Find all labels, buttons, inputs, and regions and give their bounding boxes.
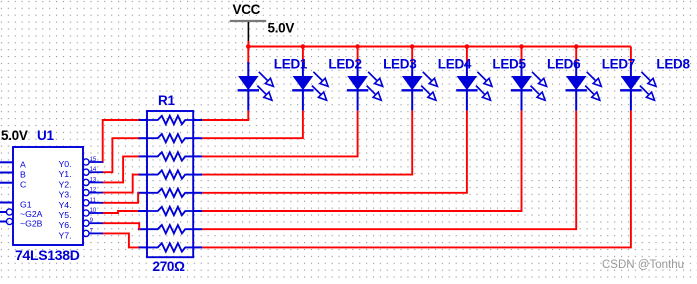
junction bus/LED2: [301, 44, 306, 49]
wire U1 Y5 to R1 row 6: [103, 211, 138, 213]
wire U1 Y4 to R1 row 5: [103, 193, 139, 203]
wire LED3 cathode to R1 row 3: [202, 111, 357, 157]
IC U1 74LS138D decoder: [0, 147, 103, 263]
svg-text:270Ω: 270Ω: [153, 259, 186, 274]
svg-text:10: 10: [90, 208, 97, 214]
wire LED4 cathode to R1 row 4: [202, 111, 412, 175]
svg-text:5.0V: 5.0V: [268, 21, 295, 36]
LED LED7: [566, 57, 636, 111]
svg-text:CSDN @Tonthu: CSDN @Tonthu: [602, 259, 684, 271]
wire bus to LED6 anode: [521, 47, 523, 65]
svg-text:12: 12: [90, 188, 97, 194]
svg-text:G1: G1: [20, 200, 32, 210]
watermark CSDN @Tonthu: [602, 259, 684, 271]
svg-text:Y6.: Y6.: [59, 220, 72, 230]
wire bus to LED1 anode: [247, 47, 249, 65]
wire LED8 cathode to R1 row 8: [202, 111, 631, 248]
wire LED2 cathode to R1 row 2: [202, 111, 303, 139]
svg-text:C: C: [20, 180, 26, 190]
LED LED2: [292, 57, 362, 111]
label U1: [37, 128, 54, 143]
LED LED5: [456, 57, 526, 111]
svg-text:Y1.: Y1.: [59, 169, 72, 179]
wire U1 Y7 to R1 row 8: [103, 233, 139, 247]
wire bus to LED7 anode: [575, 47, 577, 65]
junction bus/LED4: [410, 44, 415, 49]
wire U1 Y6 to R1 row 7: [103, 223, 140, 229]
junction bus/LED3: [355, 44, 360, 49]
LED LED4: [402, 57, 472, 111]
wire bus to LED3 anode: [357, 47, 359, 65]
svg-text:11: 11: [90, 198, 97, 204]
svg-text:Y4.: Y4.: [59, 200, 72, 210]
svg-text:Y7.: Y7.: [59, 230, 72, 240]
svg-text:Y2.: Y2.: [59, 179, 72, 189]
svg-text:VCC: VCC: [233, 2, 261, 17]
svg-text:Y5.: Y5.: [59, 210, 72, 220]
wire bus to LED8 anode: [630, 47, 632, 65]
label 5.0V on U1 supply: [1, 128, 28, 143]
LED LED8: [620, 57, 690, 111]
svg-text:B: B: [20, 170, 26, 180]
svg-text:~G2A: ~G2A: [20, 209, 43, 219]
wire LED7 cathode to R1 row 7: [202, 111, 576, 230]
LED LED1: [238, 57, 308, 111]
wire LED1 cathode to R1 row 1: [202, 111, 248, 120]
LED LED6: [511, 57, 581, 111]
LED LED3: [347, 57, 417, 111]
svg-text:A: A: [20, 159, 26, 169]
svg-text:U1: U1: [37, 128, 54, 143]
svg-text:Y3.: Y3.: [59, 190, 72, 200]
svg-text:13: 13: [90, 177, 97, 183]
wire LED6 cathode to R1 row 6: [202, 111, 521, 211]
resistor network R1 270ohm: [138, 93, 203, 274]
svg-text:R1: R1: [158, 93, 175, 108]
svg-text:14: 14: [90, 167, 97, 173]
wire U1 Y1 to R1 row 2: [103, 138, 139, 172]
wire bus to LED4 anode: [411, 47, 413, 65]
svg-text:LED8: LED8: [656, 57, 690, 72]
junction bus/LED7: [574, 44, 579, 49]
power symbol VCC: [230, 2, 267, 41]
wire U1 Y0 to R1 row 1: [103, 120, 139, 162]
wire bus to LED2 anode: [302, 47, 304, 65]
wire LED5 cathode to R1 row 5: [202, 111, 467, 193]
svg-text:Y0.: Y0.: [59, 159, 72, 169]
wire U1 Y2 to R1 row 3: [103, 156, 139, 182]
svg-text:~G2B: ~G2B: [20, 219, 43, 229]
svg-text:74LS138D: 74LS138D: [15, 247, 80, 263]
junction bus/LED6: [519, 44, 524, 49]
junction bus/LED5: [465, 44, 470, 49]
junction bus/LED1: [246, 44, 251, 49]
svg-text:5.0V: 5.0V: [1, 128, 28, 143]
label 5.0V on VCC net: [268, 21, 295, 36]
wire VCC bus to LED anodes: [248, 41, 631, 47]
wire U1 Y3 to R1 row 4: [103, 175, 139, 193]
wire bus to LED5 anode: [466, 47, 468, 65]
svg-text:15: 15: [90, 157, 97, 163]
